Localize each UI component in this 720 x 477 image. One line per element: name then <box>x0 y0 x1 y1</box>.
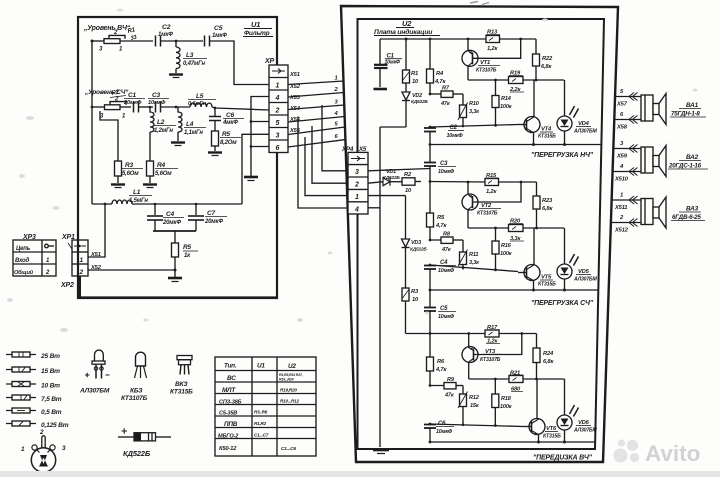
led VD5 <box>557 228 579 292</box>
transistor VT2 <box>462 181 522 228</box>
svg-text:4,7к: 4,7к <box>435 367 447 373</box>
wire base line ch1 <box>430 125 518 128</box>
svg-text:2: 2 <box>79 269 84 276</box>
svg-text:100к: 100к <box>500 104 513 110</box>
resistor R7 <box>441 91 463 97</box>
potentiometer R1 <box>104 35 125 43</box>
wire input bus <box>91 41 93 204</box>
svg-text:5: 5 <box>276 120 280 127</box>
connector X5 <box>348 152 368 214</box>
wire cell3 riser <box>242 134 269 204</box>
wire to X5 pin1 <box>305 137 348 196</box>
svg-text:1: 1 <box>620 193 623 199</box>
svg-text:R4: R4 <box>157 162 165 169</box>
svg-text:КТ315Б: КТ315Б <box>538 134 556 140</box>
wire speaker BA1 pin5 <box>615 96 641 98</box>
wire cell6 gnd <box>251 146 269 148</box>
svg-text:3,3к: 3,3к <box>469 109 480 115</box>
wire cap bus <box>153 230 196 232</box>
svg-text:ХР: ХР <box>264 58 274 65</box>
wire X55 <box>288 127 345 135</box>
svg-text:R1,R2: R1,R2 <box>254 421 267 426</box>
scan marks top <box>470 2 489 5</box>
wire bottom rail <box>92 203 242 205</box>
svg-text:C3: C3 <box>152 92 160 99</box>
svg-text:КД522Б: КД522Б <box>411 99 428 105</box>
table components <box>215 357 316 456</box>
svg-text:10мкФ: 10мкФ <box>385 60 401 66</box>
svg-text:АЛ307БМ: АЛ307БМ <box>79 388 110 395</box>
svg-text:20мкФ: 20мкФ <box>204 219 223 225</box>
svg-text:R12: R12 <box>469 395 480 401</box>
bottom band <box>0 471 720 477</box>
svg-text:С5-35В: С5-35В <box>219 411 237 417</box>
potentiometer R2 <box>105 102 127 110</box>
resistor R6 <box>427 357 434 371</box>
svg-text:7,5 Вт: 7,5 Вт <box>41 396 62 403</box>
svg-text:5,6Ом: 5,6Ом <box>155 171 172 177</box>
wire R17 supply line <box>406 333 537 335</box>
ground <box>171 141 185 143</box>
svg-text:R5: R5 <box>183 244 191 251</box>
legend resistor 10W <box>6 382 36 387</box>
svg-text:20ГДС-1-16: 20ГДС-1-16 <box>668 163 702 170</box>
capacitor C4 <box>424 266 436 291</box>
capacitor C5 <box>424 290 436 357</box>
svg-text:3,3к: 3,3к <box>469 260 480 266</box>
svg-text:К50-12: К50-12 <box>219 446 237 452</box>
wire R20 line <box>468 227 509 229</box>
legend resistor 25W <box>6 352 36 357</box>
wire base line ch3 <box>430 424 523 427</box>
legend diode KD522B <box>118 428 171 441</box>
svg-text:КТ315Б: КТ315Б <box>543 434 561 440</box>
svg-text:X57: X57 <box>616 102 628 108</box>
svg-text:R9: R9 <box>447 377 455 383</box>
wire vch to XP pin1 <box>210 41 269 85</box>
legend resistor 0.125W <box>6 421 36 426</box>
svg-text:"ПЕРЕГРУЗКА НЧ": "ПЕРЕГРУЗКА НЧ" <box>531 152 594 159</box>
wire R9 line <box>430 371 444 386</box>
wire X52 <box>288 93 344 98</box>
svg-text:R7: R7 <box>442 86 450 92</box>
legend potentiometer PPB <box>31 436 55 472</box>
svg-text:„Уровень ВЧ“: „Уровень ВЧ“ <box>83 25 131 32</box>
svg-text:3: 3 <box>620 141 624 147</box>
legend resistor 0.5W <box>6 408 36 413</box>
svg-text:X512: X512 <box>614 228 629 234</box>
svg-text:1,5мГн: 1,5мГн <box>129 198 148 204</box>
wire to X5 pin2 <box>312 126 348 183</box>
node labels X51-X56 <box>289 72 301 134</box>
svg-text:4,7к: 4,7к <box>434 79 446 85</box>
resistor R21 <box>509 376 565 383</box>
svg-text:КД522Б: КД522Б <box>383 175 400 181</box>
wire U1 bottom heavy <box>80 296 277 298</box>
svg-text:10 Вт: 10 Вт <box>41 383 60 390</box>
svg-text:КТ3107Б: КТ3107Б <box>480 357 501 363</box>
wire cell5 gnd <box>251 121 269 123</box>
wire R15 line <box>430 181 485 184</box>
ground <box>143 183 157 185</box>
resistor R23 <box>533 182 540 228</box>
svg-text:X58: X58 <box>616 125 628 131</box>
svg-text:1,2к: 1,2к <box>486 189 497 195</box>
wire ground column <box>379 127 381 447</box>
svg-text:L1: L1 <box>133 189 141 196</box>
resistor R4 <box>147 161 154 183</box>
svg-text:10мкФ: 10мкФ <box>148 100 166 106</box>
svg-text:КД522Б: КД522Б <box>410 247 427 253</box>
watermark avito <box>614 439 701 466</box>
svg-text:1: 1 <box>119 47 123 53</box>
capacitor C7 <box>188 204 204 231</box>
svg-text:X511: X511 <box>614 205 627 211</box>
wire cell4 gnd <box>251 97 269 177</box>
svg-text:C4: C4 <box>166 211 174 218</box>
svg-text:10мкФ: 10мкФ <box>447 133 464 139</box>
wire X52 common <box>88 269 175 271</box>
svg-text:R5: R5 <box>437 215 445 221</box>
svg-text:"ПЕРЕГРУЗКА СЧ": "ПЕРЕГРУЗКА СЧ" <box>531 300 594 307</box>
svg-text:ХР4: ХР4 <box>341 146 354 153</box>
ground <box>168 277 182 280</box>
inductor L3 <box>176 41 180 73</box>
resistor R14 <box>492 79 499 127</box>
resistor R17 <box>485 330 499 337</box>
svg-text:АЛ307БМ: АЛ307БМ <box>573 129 598 135</box>
svg-text:1,2к: 1,2к <box>487 46 498 52</box>
resistor R12 <box>458 386 468 426</box>
resistor R1 <box>403 38 410 93</box>
svg-text:1: 1 <box>122 114 126 120</box>
wire base line ch2 <box>430 265 518 272</box>
svg-text:3: 3 <box>276 133 280 140</box>
svg-text:2: 2 <box>354 182 359 189</box>
svg-text:10: 10 <box>405 188 412 194</box>
resistor R13 <box>486 36 500 43</box>
svg-text:R22: R22 <box>542 56 553 62</box>
svg-text:ВКЗ: ВКЗ <box>175 381 188 388</box>
svg-text:VD3: VD3 <box>411 240 421 246</box>
wire <box>139 106 153 108</box>
svg-text:Цепь: Цепь <box>16 246 31 252</box>
svg-text:100к: 100к <box>500 251 513 257</box>
svg-text:10: 10 <box>412 297 419 303</box>
capacitor C3 <box>424 163 436 214</box>
resistor R11 <box>458 240 468 270</box>
svg-text:1: 1 <box>21 446 25 453</box>
wire emitter line ch2 <box>430 289 598 291</box>
speaker BA3 <box>641 197 666 228</box>
svg-text:С1...С6: С1...С6 <box>281 446 296 452</box>
svg-text:X51: X51 <box>289 72 300 78</box>
scan speckles <box>7 9 698 333</box>
svg-text:C5: C5 <box>214 25 223 32</box>
svg-text:3: 3 <box>99 47 103 53</box>
box U1 filter <box>78 17 277 298</box>
svg-text:R18: R18 <box>501 396 512 402</box>
svg-text:L3: L3 <box>186 52 194 59</box>
svg-text:ППВ: ППВ <box>224 421 238 428</box>
wire R8 line <box>430 227 441 240</box>
transistor VT3 <box>462 334 522 380</box>
svg-text:VD1: VD1 <box>386 169 396 175</box>
svg-text:4: 4 <box>619 164 624 170</box>
svg-text:6: 6 <box>276 145 280 152</box>
ground U2 bottom <box>373 449 389 452</box>
svg-text:6,8к: 6,8к <box>541 64 552 70</box>
wire X54 <box>288 117 345 123</box>
svg-text:U1: U1 <box>257 363 265 370</box>
svg-text:R21: R21 <box>510 371 520 377</box>
svg-text:Х5: Х5 <box>358 146 367 153</box>
resistor R3 <box>402 288 409 334</box>
wire X5 pin3 to cap column <box>368 169 430 171</box>
svg-text:ХР3: ХР3 <box>22 234 36 241</box>
resistor R9 <box>444 383 463 389</box>
wire emitter line ch3 <box>430 441 595 443</box>
svg-text:R14: R14 <box>501 96 512 102</box>
diode VD1 <box>368 178 402 186</box>
svg-text:ВА2: ВА2 <box>686 154 699 161</box>
svg-text:2: 2 <box>334 87 339 93</box>
ground <box>169 73 183 75</box>
svg-text:C2: C2 <box>162 24 171 31</box>
led VD4 <box>557 80 579 146</box>
svg-text:R10: R10 <box>469 101 480 107</box>
svg-text:КБЗ: КБЗ <box>130 388 143 395</box>
node R2 line junction <box>429 180 432 183</box>
ground <box>374 88 388 91</box>
svg-text:R16: R16 <box>501 243 512 249</box>
connector XP1 <box>72 240 88 276</box>
resistor R4 <box>427 39 434 94</box>
transistor VT1 <box>462 38 522 80</box>
diode VD2 <box>402 92 410 127</box>
svg-text:R2: R2 <box>404 172 412 178</box>
svg-text:1: 1 <box>276 83 280 90</box>
wire to X5 pin4 <box>298 117 348 209</box>
capacitor C1 <box>134 102 139 113</box>
wire X5 pin4 ground drop <box>368 207 380 209</box>
svg-text:X52: X52 <box>90 265 102 271</box>
label Уровень СЧ <box>84 89 129 96</box>
svg-text:КТ315Б: КТ315Б <box>170 389 193 396</box>
svg-text:Фильтр: Фильтр <box>244 30 270 37</box>
label U2 Плата индикации <box>374 19 433 36</box>
svg-text:0,47мГн: 0,47мГн <box>183 61 205 67</box>
svg-text:"ПЕРЕДUЗКА ВЧ": "ПЕРЕДUЗКА ВЧ" <box>533 455 593 462</box>
svg-text:100к: 100к <box>500 404 513 410</box>
svg-text:U2: U2 <box>288 363 296 370</box>
svg-text:1: 1 <box>335 76 338 82</box>
resistor R19 <box>509 77 565 84</box>
svg-text:R3..R6: R3..R6 <box>254 410 268 415</box>
svg-text:6: 6 <box>620 112 624 118</box>
wire X51 <box>288 81 344 85</box>
wire emitter line ch1 <box>430 144 601 146</box>
diode VD3 chain <box>402 196 410 288</box>
svg-text:ВА3: ВА3 <box>686 206 699 213</box>
svg-text:15к: 15к <box>470 403 480 409</box>
resistor R8 <box>441 237 463 243</box>
svg-text:5,6Ом: 5,6Ом <box>122 171 139 177</box>
inductor L2 <box>150 107 154 161</box>
svg-text:75ГДН-1-8: 75ГДН-1-8 <box>671 111 700 118</box>
label Уровень ВЧ <box>83 25 131 32</box>
svg-text:R5: R5 <box>222 131 230 138</box>
svg-text:10мкФ: 10мкФ <box>438 268 455 274</box>
svg-text:5: 5 <box>620 89 624 95</box>
svg-text:1к: 1к <box>184 253 191 259</box>
svg-text:R11: R11 <box>469 252 478 258</box>
wire XP2 to frame <box>79 276 81 297</box>
capacitor C2 <box>156 36 161 47</box>
wire vch in <box>92 40 104 42</box>
svg-text:R8: R8 <box>443 232 451 238</box>
label overload SCh <box>531 300 594 307</box>
resistor R22 <box>533 39 540 80</box>
wire R19 line <box>468 79 509 81</box>
svg-text:1: 1 <box>80 257 84 264</box>
svg-text:0,125 Вт: 0,125 Вт <box>41 422 69 429</box>
inductor L1 <box>112 200 132 204</box>
resistor R16 <box>492 227 499 272</box>
svg-text:АЛ307БМ: АЛ307БМ <box>573 428 598 434</box>
svg-text:3: 3 <box>62 445 66 452</box>
svg-text:R1: R1 <box>127 26 137 35</box>
wire sch to XP pin2 <box>212 107 269 110</box>
svg-text:1мкФ: 1мкФ <box>212 33 227 39</box>
resistor R5 ind <box>427 213 434 227</box>
svg-text:X510: X510 <box>614 177 629 183</box>
wire X51 riser <box>88 204 105 257</box>
svg-text:1,2мГн: 1,2мГн <box>154 128 173 134</box>
svg-text:2: 2 <box>275 108 280 115</box>
wire X56 <box>288 140 345 147</box>
label overload NCh <box>531 152 594 159</box>
svg-text:5: 5 <box>335 122 339 128</box>
svg-text:C1: C1 <box>128 92 136 99</box>
svg-text:U2: U2 <box>402 19 412 28</box>
led VD6 <box>557 379 579 444</box>
ground <box>111 183 125 185</box>
svg-text:R19,R20: R19,R20 <box>280 388 297 393</box>
svg-text:АЛ307БМ: АЛ307БМ <box>573 277 598 283</box>
label overload VCh <box>533 455 593 462</box>
svg-text:0,5 Вт: 0,5 Вт <box>41 409 62 416</box>
svg-text:ХР2: ХР2 <box>60 282 74 289</box>
svg-text:КТ3107Б: КТ3107Б <box>477 211 498 217</box>
svg-text:3: 3 <box>335 100 339 106</box>
legend resistor 15W <box>6 367 36 372</box>
wire speaker BA1 pin6 <box>614 119 641 121</box>
resistor R18 <box>492 379 499 427</box>
resistor R3 <box>100 111 122 183</box>
wire speaker BA2 pin3 <box>613 148 641 150</box>
svg-text:25 Вт: 25 Вт <box>40 353 60 360</box>
svg-text:VD2: VD2 <box>412 93 422 99</box>
svg-text:1: 1 <box>46 258 50 264</box>
svg-text:X51: X51 <box>90 252 101 258</box>
svg-text:10: 10 <box>412 79 419 85</box>
svg-text:R1: R1 <box>411 71 418 77</box>
wire speaker BA3 pin2 <box>611 222 641 224</box>
resistor R24 <box>533 334 540 380</box>
svg-text:47к: 47к <box>440 101 451 107</box>
capacitor C2 <box>424 128 436 145</box>
svg-text:10мкФ: 10мкФ <box>436 429 453 435</box>
svg-text:20мкФ: 20мкФ <box>162 220 181 226</box>
resistor R10 trimmer <box>458 94 468 127</box>
svg-text:4: 4 <box>354 207 359 214</box>
svg-text:R23: R23 <box>542 198 553 204</box>
svg-text:Avito: Avito <box>645 441 700 466</box>
svg-text:47к: 47к <box>441 247 452 253</box>
svg-text:R24: R24 <box>543 351 554 357</box>
capacitor C3 <box>156 102 161 113</box>
wire speaker BA2 pin4 <box>613 171 641 173</box>
svg-text:6ГДВ-6-25: 6ГДВ-6-25 <box>672 214 701 221</box>
svg-text:МЛТ: МЛТ <box>222 387 236 394</box>
svg-text:U1: U1 <box>251 20 260 29</box>
capacitor C1 <box>374 39 388 87</box>
svg-text:R3: R3 <box>411 289 419 295</box>
svg-text:2: 2 <box>39 429 44 436</box>
svg-text:4мкФ: 4мкФ <box>222 120 238 126</box>
svg-text:6,8к: 6,8к <box>542 206 553 212</box>
svg-text:6: 6 <box>335 134 339 140</box>
capacitor C5 <box>205 36 210 47</box>
svg-text:R6: R6 <box>437 359 445 365</box>
transistor VT5 <box>518 228 540 292</box>
resistor R15 <box>485 179 537 186</box>
wire X53 <box>288 105 344 110</box>
svg-text:0,6мГн: 0,6мГн <box>188 101 207 107</box>
speaker BA1 <box>641 94 666 125</box>
svg-text:Тип.: Тип. <box>224 363 237 370</box>
svg-text:8,2Ом: 8,2Ом <box>220 140 237 146</box>
svg-text:СПЗ-38Б: СПЗ-38Б <box>219 400 242 406</box>
wire VD2 to ground column <box>380 126 406 128</box>
wire cap column seg2 <box>429 145 431 162</box>
svg-text:4,7к: 4,7к <box>435 223 447 229</box>
svg-text:L4: L4 <box>186 121 194 128</box>
wire <box>120 40 153 42</box>
svg-text:R10...R12: R10...R12 <box>280 399 300 404</box>
resistor R20 <box>509 225 565 232</box>
svg-text:6,8к: 6,8к <box>543 359 554 365</box>
svg-text:X59: X59 <box>616 154 628 160</box>
wire <box>161 40 203 42</box>
svg-text:1: 1 <box>355 194 359 201</box>
svg-text:10мкФ: 10мкФ <box>438 314 455 320</box>
connector XP3 table <box>13 240 56 276</box>
svg-text:1мкФ: 1мкФ <box>158 32 173 38</box>
svg-text:10мкФ: 10мкФ <box>438 169 455 175</box>
ground <box>208 151 222 153</box>
svg-text:Плата индикации: Плата индикации <box>374 28 433 36</box>
capacitor C6 <box>209 108 221 131</box>
svg-text:МБГО-2: МБГО-2 <box>218 434 239 440</box>
svg-text:C7: C7 <box>207 210 215 217</box>
svg-text:ВС: ВС <box>227 375 236 382</box>
wire <box>161 106 190 108</box>
legend resistor 7.5W <box>6 395 36 400</box>
svg-text:R1,R3,R13 R17,: R1,R3,R13 R17, <box>279 373 303 377</box>
svg-text:„Уровень СЧ“: „Уровень СЧ“ <box>84 89 129 96</box>
